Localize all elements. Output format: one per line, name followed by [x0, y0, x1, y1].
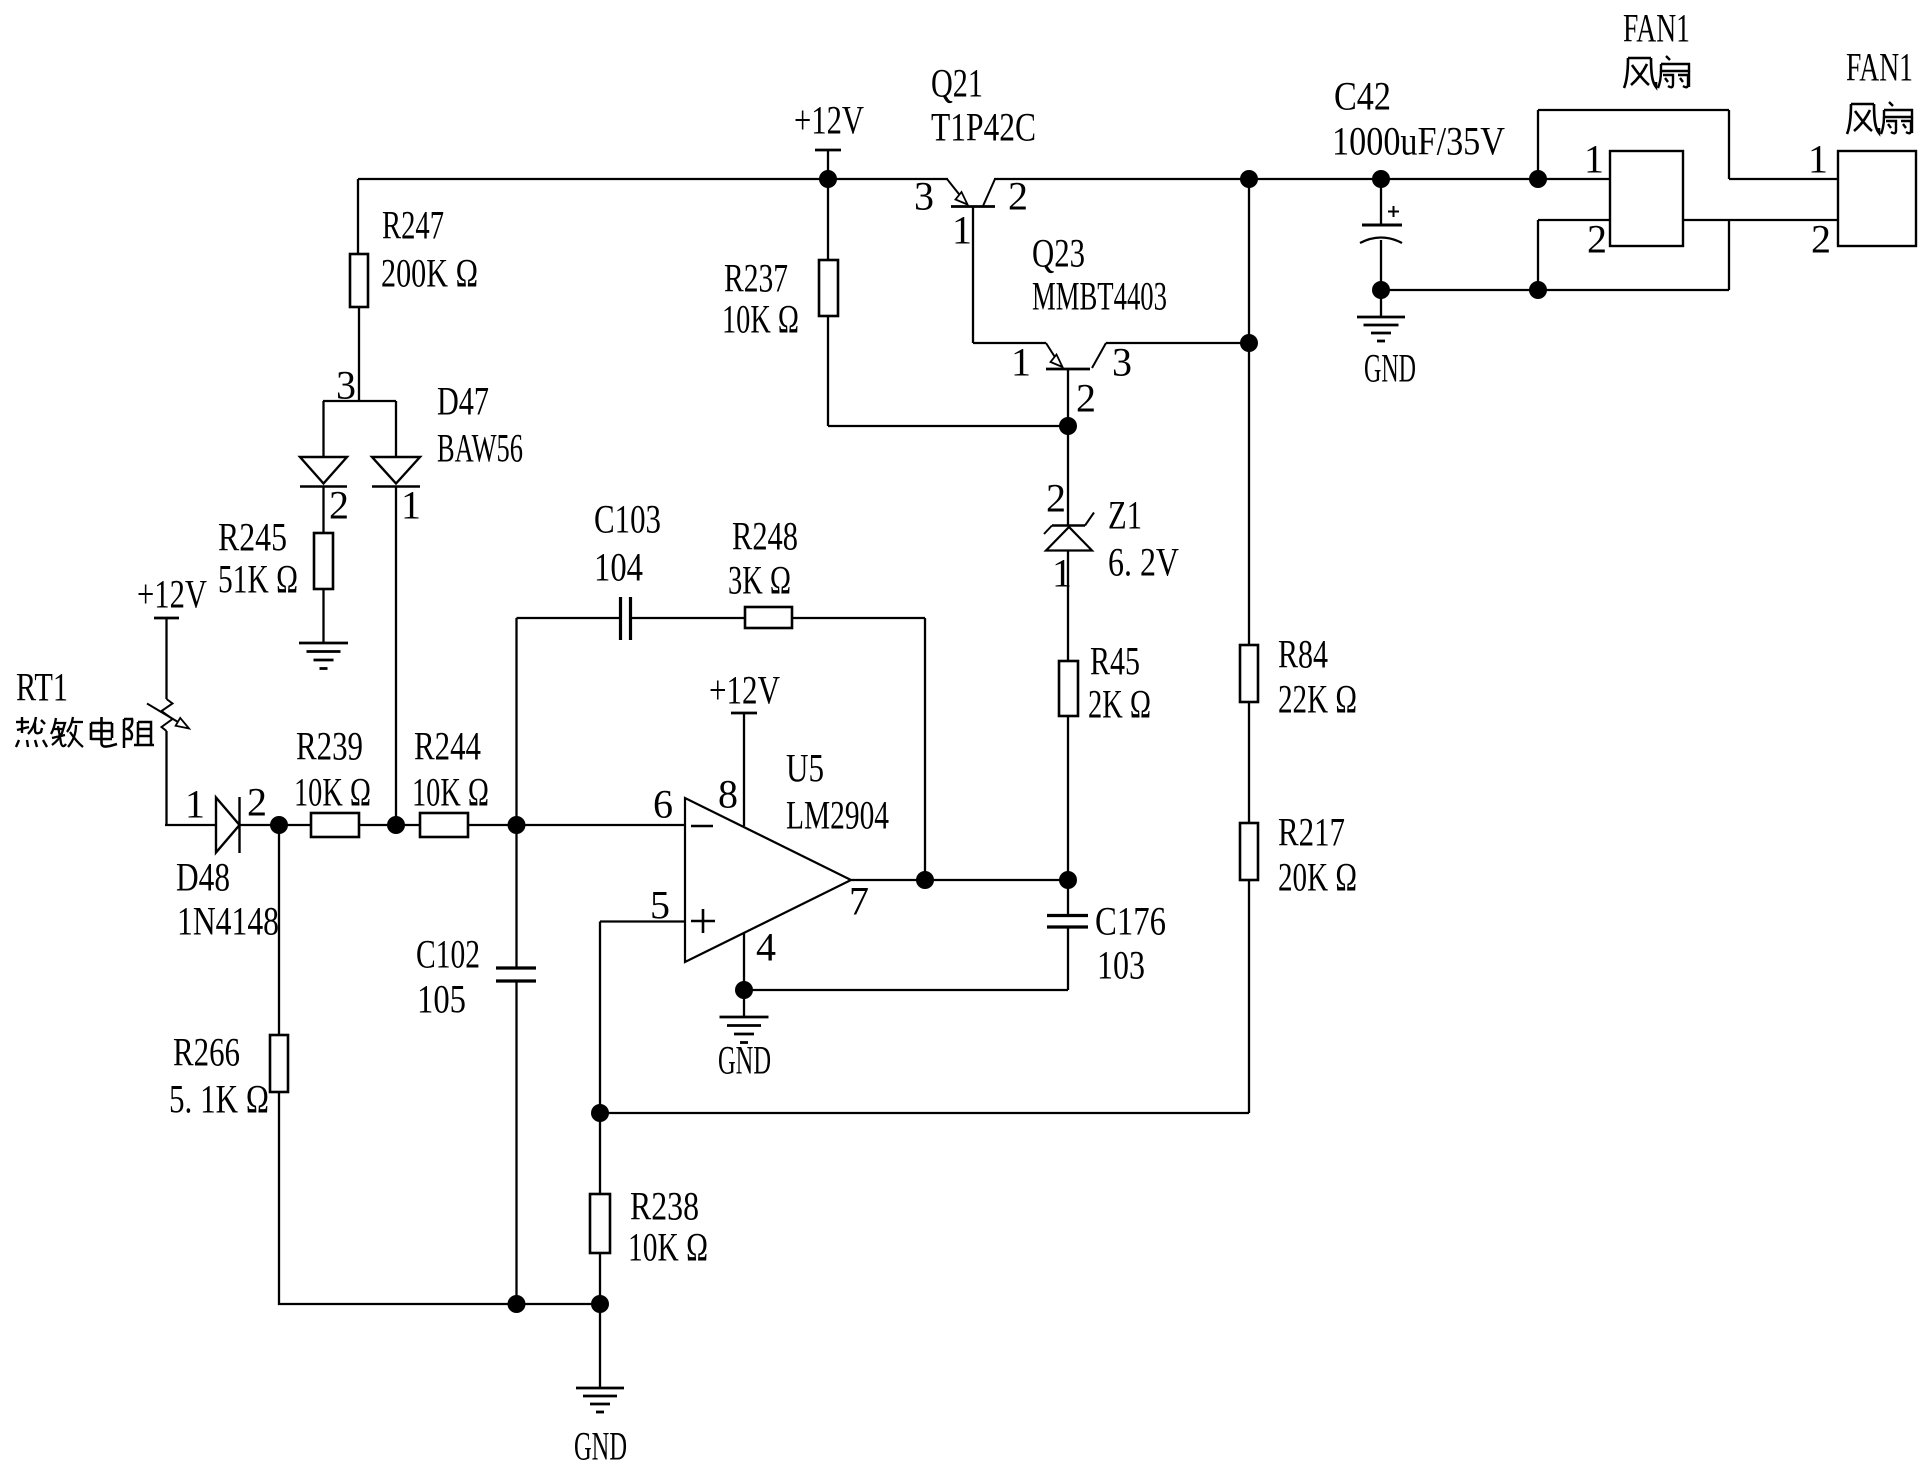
wire FAN1 box right to FAN1 right pin2 — [1683, 219, 1838, 221]
wire +12V bar stub — [827, 150, 829, 179]
svg-text:1: 1 — [1584, 137, 1604, 182]
junction dot R238 bottom — [591, 1295, 609, 1313]
wire D48 cathode to R239 — [240, 824, 312, 826]
svg-text:+12V: +12V — [709, 668, 780, 713]
FAN1 bracket right — [1728, 110, 1730, 179]
node 3 T-bar wire — [323, 400, 396, 402]
svg-text:1: 1 — [952, 208, 972, 253]
svg-text:2: 2 — [329, 483, 349, 528]
FAN1 bracket left — [1537, 110, 1539, 179]
junction dot Q23 collector node — [1059, 417, 1077, 435]
junction dot output/R45/C176 — [1059, 871, 1077, 889]
transistor Q23 — [1046, 343, 1106, 369]
wire node to C102 — [515, 825, 517, 968]
junction dot +12V rail — [819, 170, 837, 188]
resistor R248 — [745, 607, 792, 628]
resistor R217 — [1240, 823, 1258, 880]
svg-text:3K Ω: 3K Ω — [728, 558, 791, 603]
svg-text:2: 2 — [1076, 376, 1096, 421]
svg-text:1N4148: 1N4148 — [177, 899, 279, 944]
wire output pin7 — [851, 879, 1068, 881]
svg-text:1: 1 — [1011, 340, 1031, 385]
svg-text:C42: C42 — [1334, 74, 1391, 119]
svg-text:4: 4 — [756, 925, 776, 970]
svg-text:R45: R45 — [1090, 639, 1140, 684]
junction dot C42 bottom — [1372, 281, 1390, 299]
svg-text:2: 2 — [1587, 217, 1607, 262]
wire RT1 to D48 — [165, 731, 167, 826]
svg-text:200K Ω: 200K Ω — [381, 251, 478, 296]
op-amp plus sign — [691, 909, 715, 933]
junction dot R239/R244/D47 — [387, 816, 405, 834]
wire D47 pin2 to R245 — [322, 486, 324, 533]
junction dot fan return — [1529, 281, 1547, 299]
wire R217 down to bottom wire — [1248, 880, 1250, 1113]
capacitor C42 plus sign — [1388, 206, 1399, 217]
wire output node to C176 — [1067, 880, 1069, 916]
svg-text:U5: U5 — [786, 746, 824, 791]
svg-text:FAN1: FAN1 — [1623, 6, 1690, 51]
wire rail corner down to R247 — [357, 179, 359, 254]
power +12V left bar — [154, 617, 179, 620]
resistor R239 — [311, 813, 359, 837]
svg-text:Q21: Q21 — [931, 61, 983, 106]
resistor R238 — [590, 1194, 610, 1253]
svg-text:R84: R84 — [1278, 632, 1328, 677]
svg-text:R248: R248 — [732, 514, 798, 559]
svg-text:C176: C176 — [1095, 899, 1166, 944]
svg-text:6. 2V: 6. 2V — [1108, 540, 1179, 585]
wire feedback vertical up — [515, 618, 517, 826]
svg-text:D47: D47 — [437, 379, 489, 424]
op-amp minus sign — [691, 825, 713, 828]
zener Z1 — [1044, 513, 1094, 551]
resistor R237 — [819, 260, 838, 316]
svg-text:3: 3 — [1112, 340, 1132, 385]
svg-text:R239: R239 — [296, 724, 363, 769]
svg-text:10K Ω: 10K Ω — [294, 770, 371, 815]
svg-text:Z1: Z1 — [1108, 493, 1142, 538]
wire pin5 from left — [600, 920, 685, 922]
svg-text:6: 6 — [653, 782, 673, 827]
resistor R247 — [350, 254, 368, 307]
junction dot R238 top node — [591, 1104, 609, 1122]
svg-text:5: 5 — [650, 883, 670, 928]
text fengshan (fan) left — [1624, 58, 1656, 88]
wire D47 pin1 down to R239/R244 junction — [395, 486, 397, 825]
svg-text:1: 1 — [185, 782, 205, 827]
wire R45 to output node — [1067, 716, 1069, 880]
wire C42 down to ground node — [1380, 240, 1382, 290]
FAN1 bracket top — [1538, 109, 1729, 111]
wire bottom fan return — [1381, 289, 1729, 291]
wire C102 down to bottom rail — [515, 981, 517, 1304]
svg-text:10K Ω: 10K Ω — [628, 1225, 708, 1270]
diode D47 element A — [300, 457, 347, 487]
wire pin4 ground stub — [743, 990, 745, 1017]
wire Q23 collector to right vertical — [1106, 342, 1249, 344]
wire pin4 node to C176 bottom — [744, 989, 1068, 991]
svg-text:R238: R238 — [630, 1184, 699, 1229]
wire ground node stub — [1380, 290, 1382, 317]
svg-text:R266: R266 — [173, 1030, 240, 1075]
wire R245 to ground — [322, 589, 324, 643]
wire right branch down to D47 anode B — [395, 401, 397, 456]
svg-text:3: 3 — [914, 174, 934, 219]
wire bottom R238-R217 horizontal — [600, 1112, 1249, 1114]
svg-text:105: 105 — [417, 977, 466, 1022]
svg-text:T1P42C: T1P42C — [931, 105, 1036, 150]
wire +12V to RT1 — [165, 618, 167, 699]
svg-text:D48: D48 — [176, 855, 230, 900]
junction dot output/feedback — [916, 871, 934, 889]
diode D48 — [216, 797, 240, 853]
svg-text:51K Ω: 51K Ω — [218, 557, 298, 602]
capacitor C176 — [1047, 916, 1088, 928]
wire R237 to Q23 base node — [828, 425, 1068, 427]
svg-text:10K Ω: 10K Ω — [412, 770, 489, 815]
wire pin5 node down — [599, 922, 601, 1195]
diode D47 element B — [372, 457, 420, 487]
svg-text:3: 3 — [336, 363, 356, 408]
wire R238 to ground — [599, 1253, 601, 1388]
ground below R238 — [576, 1387, 624, 1390]
wire R239 to R244 — [359, 824, 420, 826]
svg-text:MMBT4403: MMBT4403 — [1032, 274, 1167, 319]
svg-text:7: 7 — [849, 879, 869, 924]
svg-text:+12V: +12V — [794, 98, 864, 143]
wire main +12V rail left segment — [358, 178, 948, 180]
resistor R245 — [314, 533, 333, 589]
svg-text:GND: GND — [1364, 346, 1416, 391]
svg-text:GND: GND — [718, 1038, 771, 1083]
svg-text:+12V: +12V — [137, 572, 207, 617]
ground below R245 — [299, 642, 348, 645]
capacitor C102 — [496, 968, 536, 981]
resistor R266 — [270, 1035, 288, 1092]
svg-text:1000uF/35V: 1000uF/35V — [1332, 119, 1505, 164]
resistor R45 — [1059, 661, 1078, 716]
resistor R244 — [420, 813, 468, 837]
svg-text:104: 104 — [594, 545, 643, 590]
junction dot rail/R84 — [1240, 170, 1258, 188]
power +12V top bar — [815, 149, 841, 152]
wire Z1 to R45 — [1067, 550, 1069, 661]
wire bottom horizontal to R238 node — [278, 1303, 600, 1305]
wire R247 to node 3 — [358, 307, 360, 402]
capacitor C42 — [1360, 225, 1402, 243]
wire into D48 anode — [165, 824, 216, 826]
svg-text:R245: R245 — [218, 515, 287, 560]
ground below U5 pin4 — [720, 1016, 769, 1019]
svg-text:Q23: Q23 — [1032, 231, 1085, 276]
svg-text:GND: GND — [574, 1424, 627, 1469]
junction dot C102 bottom — [508, 1295, 526, 1313]
svg-text:2: 2 — [247, 780, 267, 825]
wire Q21 pin1 to Q23 emitter — [973, 342, 1046, 344]
junction dot rail/C42 — [1372, 170, 1390, 188]
svg-text:R217: R217 — [1278, 810, 1345, 855]
svg-text:1: 1 — [1052, 551, 1072, 596]
power +12V bar above U5 — [731, 712, 757, 715]
svg-text:22K Ω: 22K Ω — [1278, 677, 1357, 722]
thermistor RT1 arrow — [147, 704, 189, 729]
ground below C42 — [1357, 316, 1405, 319]
svg-text:BAW56: BAW56 — [437, 426, 523, 471]
svg-text:2: 2 — [1811, 217, 1831, 262]
junction dot Q23 collector / R84 line — [1240, 334, 1258, 352]
wire pin4 down — [743, 933, 745, 990]
connector FAN1 right box — [1838, 151, 1916, 246]
junction dot pin4 ground node — [735, 981, 753, 999]
resistor R84 — [1240, 645, 1258, 702]
svg-text:2: 2 — [1046, 476, 1066, 521]
capacitor C103 — [621, 597, 631, 640]
wire R248 to output vertical — [792, 617, 925, 619]
wire main +12V rail right segment — [994, 178, 1610, 180]
wire feedback vertical down to output — [924, 618, 926, 880]
wire Q21 pin1 down — [972, 207, 974, 343]
svg-text:FAN1: FAN1 — [1846, 45, 1913, 90]
svg-text:1: 1 — [401, 483, 421, 528]
svg-text:8: 8 — [718, 772, 738, 817]
svg-text:LM2904: LM2904 — [786, 793, 889, 838]
wire FAN1 pin2 — [1538, 219, 1610, 221]
thermistor RT1 zigzag — [162, 699, 173, 731]
wire to C103 — [517, 617, 621, 619]
svg-text:103: 103 — [1097, 943, 1145, 988]
svg-text:2K Ω: 2K Ω — [1088, 682, 1151, 727]
text reminendianzu (thermistor) — [16, 717, 47, 747]
wire rail to C42 — [1380, 179, 1382, 225]
wire left branch down to D47 anode A — [322, 401, 324, 456]
svg-text:C102: C102 — [416, 932, 480, 977]
wire rail bracket to FAN1 pin1 — [1729, 178, 1838, 180]
svg-text:20K Ω: 20K Ω — [1278, 855, 1357, 900]
svg-text:1: 1 — [1808, 137, 1828, 182]
svg-text:R244: R244 — [414, 724, 481, 769]
wire fan return up — [1728, 220, 1730, 290]
wire C176 to ground wire — [1067, 927, 1069, 990]
junction dot D48/R266 — [270, 816, 288, 834]
connector FAN1 left box — [1610, 151, 1683, 246]
svg-text:C103: C103 — [594, 497, 661, 542]
svg-text:10K Ω: 10K Ω — [722, 297, 799, 342]
wire Q23 pin2 down — [1067, 370, 1069, 426]
transistor Q21 — [947, 179, 995, 207]
svg-text:R247: R247 — [382, 203, 444, 248]
wire +12V dot to R237 — [827, 179, 829, 260]
junction dot inverting input node — [508, 816, 526, 834]
text fengshan (fan) right — [1847, 104, 1879, 134]
wire R244 to opamp pin6 — [468, 824, 685, 826]
wire R237 down — [827, 316, 829, 426]
wire D48 node down to R266 — [278, 825, 280, 1035]
wire pin8 from +12V — [743, 713, 745, 826]
wire R84 to R217 — [1248, 702, 1250, 823]
svg-text:RT1: RT1 — [16, 665, 68, 710]
svg-text:5. 1K Ω: 5. 1K Ω — [169, 1077, 269, 1122]
wire C103 to R248 — [631, 617, 746, 619]
wire Q23 pin2 to Z1 — [1067, 426, 1069, 526]
svg-text:2: 2 — [1008, 174, 1028, 219]
wire rail down to R84 — [1248, 179, 1250, 645]
junction dot rail/FAN1 — [1529, 170, 1547, 188]
svg-text:R237: R237 — [724, 256, 788, 301]
wire R266 down — [278, 1092, 280, 1305]
wire FAN1 pin2 down — [1537, 220, 1539, 290]
op-amp U5 triangle — [685, 798, 851, 962]
